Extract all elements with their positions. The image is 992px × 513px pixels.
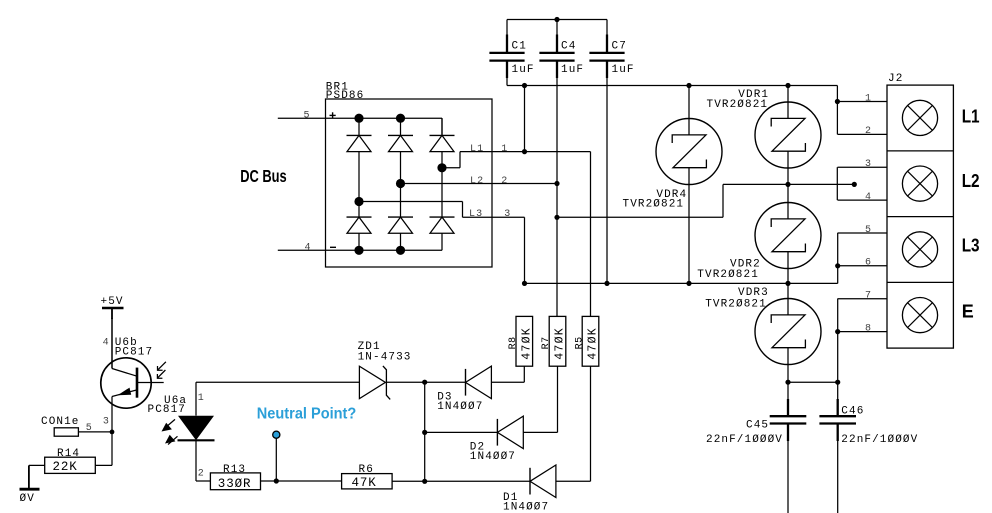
svg-text:47K: 47K: [352, 476, 377, 490]
svg-text:1: 1: [501, 144, 508, 155]
wire bracket pins5-6 to rail: [837, 233, 839, 283]
power +5V symbol: [102, 308, 124, 319]
J2 pin number 4: [865, 192, 872, 203]
connector CON1e symbol: [54, 428, 78, 436]
minus sign: [330, 246, 336, 248]
svg-text:R7: R7: [541, 336, 552, 349]
value R8 470K rotated: [520, 327, 533, 360]
label VDR1: [738, 89, 769, 101]
node dot emitter/CON1e: [110, 430, 115, 435]
wire R13 to R6: [261, 480, 342, 482]
wire U6a cathode down: [196, 440, 210, 481]
svg-text:TVR2Ø821: TVR2Ø821: [707, 99, 769, 111]
transistor U6b base stub: [137, 382, 164, 384]
label VDR4: [656, 189, 687, 201]
node dot L1 drop at mid bus: [522, 83, 527, 88]
label R6: [359, 464, 374, 476]
svg-text:DC Bus: DC Bus: [240, 166, 287, 186]
svg-text:22nF/1ØØØV: 22nF/1ØØØV: [706, 434, 783, 446]
connector J2 outline: [887, 85, 953, 348]
wire col3 mid: [441, 152, 443, 218]
J2 pin number 2: [865, 126, 872, 137]
bridge diode top col2: [388, 118, 413, 151]
label C1: [512, 40, 527, 52]
wire R6 to D-net: [392, 480, 425, 482]
pin name L1: [470, 144, 484, 155]
J2 pin number 8: [865, 323, 872, 334]
svg-text:1uF: 1uF: [612, 64, 635, 76]
wire DC mid bus y85 C1-bottom to J2 pins1-2: [507, 85, 837, 87]
node dot C46 top: [835, 380, 840, 385]
bridge diode top col3: [430, 118, 455, 151]
label C46: [841, 406, 864, 418]
J2 cell divider 3: [887, 281, 953, 283]
value R13 330R: [218, 477, 252, 491]
transistor U6b base bar: [136, 368, 139, 398]
op-amp U6b phototransistor circle: [101, 358, 151, 408]
wire col2 mid: [400, 152, 402, 218]
pin label 2 (U6a): [198, 468, 205, 479]
varistor VDR4: [656, 86, 722, 284]
J2 terminal circle 1: [902, 100, 937, 135]
pin label 5: [304, 110, 311, 121]
svg-text:PC817: PC817: [115, 346, 154, 358]
wire VDR1-VDR2: [787, 151, 789, 219]
svg-text:R14: R14: [57, 448, 80, 460]
value R7 470K rotated: [553, 327, 566, 360]
J2 pin number 3: [865, 159, 872, 170]
node Neutral Point marker: [273, 431, 280, 438]
bridge BR1 outline box: [326, 99, 493, 267]
node dot L1 takeoff: [437, 163, 446, 172]
J2 pin 2 wire: [838, 133, 888, 135]
value R14 22K: [53, 460, 78, 474]
wire L1 out: [460, 151, 591, 153]
node dot C4/cross wire: [554, 215, 559, 220]
value VDR4 TVR20821: [623, 198, 685, 210]
varistor VDR3: [755, 283, 821, 382]
value R6 47K: [352, 476, 377, 490]
svg-text:C4: C4: [561, 40, 576, 52]
resistor R8 box: [516, 316, 533, 366]
wire cross to jog: [557, 184, 854, 217]
svg-text:5: 5: [86, 423, 93, 434]
label D2: [470, 441, 485, 453]
wire L3 drop to rail: [524, 217, 526, 283]
pin label 3 (emitter): [103, 417, 110, 428]
node dot pin8 junction: [835, 329, 840, 334]
svg-text:4: 4: [305, 243, 312, 254]
svg-text:1N4ØØ7: 1N4ØØ7: [470, 451, 516, 463]
svg-text:Neutral Point?: Neutral Point?: [257, 406, 357, 423]
light arrow 1 into U6b: [158, 362, 166, 370]
label L2 bold: [962, 171, 980, 191]
wire R8 bottom lead: [491, 366, 524, 382]
pin name L3: [469, 209, 483, 220]
svg-text:PSD86: PSD86: [326, 90, 365, 102]
pin number 3: [504, 209, 511, 220]
J2 pin 5 wire: [838, 232, 888, 234]
resistor R14 box: [45, 457, 96, 473]
value D1 1N4007: [503, 502, 549, 513]
label BR1: [326, 82, 349, 94]
wire L3 jog: [359, 202, 525, 218]
svg-text:L3: L3: [469, 209, 483, 220]
node dot R6/D1 branch: [422, 479, 427, 484]
diode ZD1 zener: [359, 366, 390, 400]
label U6a: [164, 395, 187, 407]
wire node to D3: [425, 381, 466, 383]
svg-text:1: 1: [198, 393, 205, 404]
value C7 1uF: [612, 64, 635, 76]
node dot VDR4 top: [686, 83, 691, 88]
wire C7 lower lead to bottom rail: [606, 78, 608, 283]
svg-text:L2: L2: [470, 176, 484, 187]
node dot C45 top: [785, 380, 790, 385]
svg-text:C1: C1: [512, 40, 527, 52]
svg-text:2: 2: [501, 176, 508, 187]
J2 terminal circle 3: [902, 232, 937, 267]
svg-text:C7: C7: [612, 40, 627, 52]
capacitor C45: [770, 382, 807, 513]
svg-text:L1: L1: [470, 144, 484, 155]
wire bottom rail: [525, 282, 838, 284]
J2 cell divider 2: [887, 216, 953, 218]
capacitor C7: [589, 35, 624, 79]
wire emitter lead down: [111, 397, 113, 466]
capacitor C1: [489, 35, 524, 79]
pin label 4 (collector): [103, 338, 110, 349]
pin number 2: [501, 176, 508, 187]
svg-text:TVR2Ø821: TVR2Ø821: [705, 298, 767, 310]
svg-text:E: E: [962, 302, 974, 322]
svg-text:C45: C45: [746, 420, 769, 432]
J2 pin 8 wire: [838, 331, 888, 333]
label C7: [612, 40, 627, 52]
value D3 1N4007: [437, 401, 483, 413]
wire top bus joining C1 C4 C7: [507, 20, 607, 36]
resistor R6 box: [342, 474, 393, 489]
value PC817 (U6a): [148, 404, 187, 416]
svg-text:VDR3: VDR3: [738, 287, 769, 299]
varistor VDR2: [755, 203, 821, 284]
transistor U6b emitter diagonal: [112, 390, 137, 397]
node dot L3 takeoff: [354, 197, 363, 206]
label J2: [888, 73, 903, 85]
label D3: [437, 392, 452, 404]
node dot rail C7: [604, 281, 609, 286]
J2 pin 3 wire: [838, 166, 888, 168]
value PSD86: [326, 90, 365, 102]
value D2 1N4007: [470, 451, 516, 463]
svg-text:R8: R8: [508, 336, 519, 349]
svg-text:6: 6: [865, 258, 872, 269]
svg-text:3: 3: [865, 159, 872, 170]
pin label 4: [305, 243, 312, 254]
node dot pin6 junction: [835, 263, 840, 268]
pin label 5 (CON1e): [86, 423, 93, 434]
svg-text:4: 4: [865, 192, 872, 203]
J2 pin number 5: [865, 225, 872, 236]
node dot + rail col1: [354, 114, 363, 123]
value VDR2 TVR20821: [697, 269, 759, 281]
svg-text:4: 4: [103, 338, 110, 349]
wire D-net vertical: [424, 382, 426, 481]
label C4: [561, 40, 576, 52]
svg-text:1: 1: [865, 93, 872, 104]
wire D2 branch: [425, 431, 498, 433]
wire R7 bottom lead: [523, 366, 557, 432]
wire D1 branch: [425, 480, 530, 482]
svg-text:+5V: +5V: [101, 296, 124, 308]
label R14: [57, 448, 80, 460]
svg-text:47ØK: 47ØK: [553, 327, 566, 360]
svg-text:8: 8: [865, 323, 872, 334]
svg-text:3: 3: [504, 209, 511, 220]
label DC Bus: [240, 166, 287, 186]
svg-text:TVR2Ø821: TVR2Ø821: [623, 198, 685, 210]
svg-text:47ØK: 47ØK: [520, 327, 533, 360]
value C46 22nF/1000V: [841, 434, 918, 446]
varistor VDR1: [755, 86, 821, 169]
node dot VDR1-VDR2 mid junction: [785, 182, 790, 187]
label L3 bold: [962, 236, 980, 256]
light arrow 2 out of U6a: [165, 435, 178, 445]
label +5V: [101, 296, 124, 308]
wire R14 right to emitter: [95, 464, 112, 466]
J2 pin number 1: [865, 93, 872, 104]
wire L2 out: [401, 183, 558, 185]
svg-text:TVR2Ø821: TVR2Ø821: [697, 269, 759, 281]
label R7 rotated: [541, 336, 552, 349]
svg-text:1N-4733: 1N-4733: [358, 351, 412, 363]
label ZD1: [358, 341, 381, 353]
svg-text:5: 5: [304, 110, 311, 121]
label L1 bold: [962, 106, 980, 126]
node dot pin1 junction: [835, 99, 840, 104]
J2 pin 6 wire: [838, 265, 888, 267]
label R8 rotated: [508, 336, 519, 349]
svg-text:2: 2: [198, 468, 205, 479]
svg-text:22K: 22K: [53, 460, 78, 474]
wire U6a pin1 to ZD1: [196, 381, 359, 383]
svg-text:47ØK: 47ØK: [586, 327, 599, 360]
wire L1 jog: [442, 152, 460, 168]
J2 pin 1 wire: [838, 101, 888, 103]
transistor U6b emitter arrow: [118, 388, 132, 396]
svg-text:L2: L2: [962, 171, 980, 191]
capacitor C4: [539, 35, 574, 79]
J2 terminal circle 4: [902, 298, 937, 333]
node dot wire end at J2 3-4: [852, 182, 857, 187]
wire U6a anode top: [195, 382, 197, 415]
capacitor C46: [819, 382, 856, 513]
bridge diode top col1: [347, 118, 372, 151]
value R5 470K rotated: [586, 327, 599, 360]
resistor R5 box: [582, 316, 599, 366]
J2 terminal circle 2: [902, 166, 937, 201]
value VDR3 TVR20821: [705, 298, 767, 310]
node dot rail VDR4: [686, 281, 691, 286]
resistor R13 box: [210, 473, 260, 490]
node dot D2 branch: [422, 430, 427, 435]
label D1: [503, 492, 518, 504]
wire neutral stub: [275, 438, 277, 481]
J2 pin number 6: [865, 258, 872, 269]
svg-text:CON1e: CON1e: [41, 416, 80, 428]
bridge diode bottom col3: [430, 217, 455, 250]
wire col1 mid: [358, 152, 360, 218]
svg-text:J2: J2: [888, 73, 903, 85]
label C45: [746, 420, 769, 432]
light arrow 2 into U6b: [157, 370, 165, 378]
transistor U6b collector diagonal: [112, 369, 137, 377]
wire drop mid-bus to L1: [524, 86, 526, 152]
node dot ZD1/D3: [422, 380, 427, 385]
wire L1 drop to R5: [590, 152, 592, 317]
node dot VDR1 top: [785, 83, 790, 88]
resistor R7 box: [549, 316, 566, 366]
pin 4 wire (- input): [278, 249, 326, 251]
node dot L1/capdrop junction: [522, 149, 527, 154]
node dot L2/C4 junction: [554, 181, 559, 186]
svg-text:R6: R6: [359, 464, 374, 476]
svg-text:L3: L3: [962, 236, 980, 256]
label VDR3: [738, 287, 769, 299]
wire + rail: [326, 118, 443, 135]
J2 pin number 7: [865, 291, 872, 302]
bridge diode bottom col2: [388, 217, 413, 250]
svg-text:C46: C46: [841, 406, 864, 418]
wire bracket pins3-4: [836, 167, 838, 200]
label E bold: [962, 302, 974, 322]
svg-text:PC817: PC817: [148, 404, 187, 416]
wire bracket pins1-2: [836, 86, 838, 135]
value C4 1uF: [561, 64, 584, 76]
node dot neutral junction: [274, 478, 279, 483]
node dot L2 takeoff: [396, 179, 405, 188]
wire bracket pins7-8 to C46: [837, 299, 839, 383]
ground 0V bar: [20, 488, 40, 491]
svg-text:33ØR: 33ØR: [218, 477, 252, 491]
wire C1 bottom lead: [506, 78, 508, 86]
svg-text:22nF/1ØØØV: 22nF/1ØØØV: [841, 434, 918, 446]
svg-text:2: 2: [865, 126, 872, 137]
wire CON1e to emitter: [78, 431, 112, 433]
label Neutral Point?: [257, 406, 357, 423]
wire - rail: [326, 249, 443, 251]
wire VDR3 to C46 bracket: [788, 381, 838, 383]
svg-text:7: 7: [865, 291, 872, 302]
label VDR2: [730, 259, 761, 271]
bridge diode bottom col1: [347, 217, 372, 250]
wire ZD1 to node: [386, 381, 424, 383]
svg-text:R5: R5: [575, 336, 586, 349]
plus sign: [330, 112, 336, 118]
label R13: [223, 464, 246, 476]
J2 cell divider 1: [887, 150, 953, 152]
diode D2: [497, 416, 523, 449]
value ZD1 1N-4733: [358, 351, 412, 363]
diode D1: [530, 465, 556, 498]
pin 5 wire (+ input): [278, 117, 326, 119]
svg-text:1N4ØØ7: 1N4ØØ7: [503, 502, 549, 513]
light arrow 1 out of U6a: [162, 419, 176, 431]
node dot + rail col2: [396, 114, 405, 123]
svg-text:1N4ØØ7: 1N4ØØ7: [437, 401, 483, 413]
node dot - rail col2: [396, 246, 405, 255]
value VDR1 TVR20821: [707, 99, 769, 111]
svg-text:R13: R13: [223, 464, 246, 476]
svg-text:3: 3: [103, 417, 110, 428]
pin name L2: [470, 176, 484, 187]
node junction dot C4 top: [554, 17, 559, 22]
svg-text:1uF: 1uF: [512, 64, 535, 76]
wire C4 top lead: [556, 20, 558, 36]
label 0V: [20, 493, 35, 505]
J2 pin 7 wire: [838, 298, 888, 300]
node dot - rail col1: [354, 246, 363, 255]
wire C4 lower lead to R7: [556, 78, 558, 316]
value C45 22nF/1000V: [706, 434, 783, 446]
wire R5 bottom lead: [556, 366, 591, 481]
diode D3: [466, 366, 492, 399]
svg-text:5: 5: [865, 225, 872, 236]
svg-text:ØV: ØV: [20, 493, 35, 505]
pin label 1 (U6a): [198, 393, 205, 404]
svg-text:L1: L1: [962, 106, 980, 126]
svg-text:1uF: 1uF: [561, 64, 584, 76]
label R5 rotated: [575, 336, 586, 349]
wire R14 left to ground: [29, 465, 45, 489]
value PC817 (U6b): [115, 346, 154, 358]
node dot rail R8: [522, 281, 527, 286]
wire collector lead: [111, 318, 113, 369]
value C1 1uF: [512, 64, 535, 76]
label CON1e: [41, 416, 80, 428]
diode U6a LED: [178, 416, 215, 441]
node dot rail VDR2: [785, 281, 790, 286]
label U6b: [115, 337, 138, 349]
J2 pin 4 wire: [838, 199, 888, 201]
pin number 1: [501, 144, 508, 155]
